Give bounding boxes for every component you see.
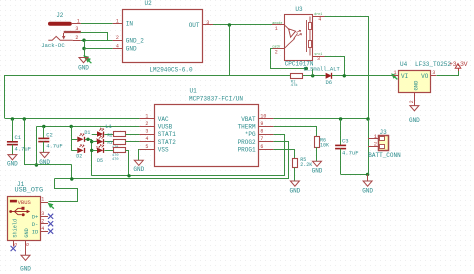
ERC marker at U4 VI — [391, 73, 397, 79]
U3 pin 3 — [313, 52, 325, 62]
junction after D6 — [343, 74, 346, 77]
svg-text:LM2940CS-6.0: LM2940CS-6.0 — [149, 67, 193, 74]
svg-text:4: 4 — [145, 136, 148, 142]
connector J2 pin 2 — [73, 35, 81, 41]
wire maze horizontal — [24, 164, 72, 166]
junction 6V at pin3 drop — [311, 74, 314, 77]
resistor R5 — [293, 157, 313, 168]
svg-text:src1: src1 — [314, 52, 322, 57]
svg-text:THERM: THERM — [238, 124, 256, 131]
J1 pin 5 Shield — [11, 240, 19, 251]
wire U1 VSS to GND — [139, 150, 140, 161]
junction maze bottom — [70, 177, 73, 180]
wire stub to D2 — [71, 150, 77, 152]
svg-text:4.7uF: 4.7uF — [46, 143, 63, 150]
wire J1 staircase — [49, 179, 78, 202]
svg-text:2: 2 — [374, 140, 377, 147]
wire to U2 GND pin — [84, 48, 113, 50]
ground under U4 — [409, 106, 420, 124]
J1 VBUS bar icon — [10, 200, 17, 203]
connector J1 body — [8, 197, 41, 241]
wire stub above junction — [312, 69, 314, 76]
wire U3 pin2 loop — [271, 49, 306, 69]
svg-text:6: 6 — [25, 243, 31, 246]
svg-text:1: 1 — [41, 197, 44, 203]
regulator U2 value LM2940CS-6.0 — [149, 67, 193, 74]
svg-text:D_Small_ALT: D_Small_ALT — [304, 65, 341, 72]
svg-text:2.2K: 2.2K — [300, 162, 312, 168]
svg-text:1: 1 — [116, 19, 119, 25]
svg-text:R3: R3 — [107, 142, 113, 146]
wire D4 to R3 — [104, 141, 113, 143]
diode D6 value D_Small_ALT — [304, 65, 341, 72]
connector J3 reference label — [380, 129, 388, 136]
wire R4 to PG loop — [126, 151, 129, 176]
svg-text:L1: L1 — [105, 123, 112, 130]
U4 pin 2 GND — [409, 80, 420, 106]
resistor R3 — [107, 140, 125, 159]
regulator U4 reference label — [400, 61, 408, 68]
wire junction down to 6V line — [229, 25, 231, 76]
svg-text:D2: D2 — [76, 154, 82, 160]
svg-text:VUSB: VUSB — [158, 124, 173, 131]
wire R5 to GND — [294, 168, 296, 181]
svg-text:OUT: OUT — [189, 22, 200, 29]
wire U3 pin3 to 6V line — [325, 57, 345, 76]
junction C1 top — [11, 117, 14, 120]
svg-text:U4: U4 — [400, 61, 408, 68]
junction at jack pin2 — [82, 39, 85, 42]
svg-text:2: 2 — [409, 100, 415, 103]
svg-text:GND: GND — [133, 166, 144, 173]
U4 pin 3 VO — [421, 70, 436, 80]
led D4 — [96, 135, 104, 150]
svg-text:+3.3V: +3.3V — [449, 61, 468, 68]
wire J3 vertical — [368, 119, 370, 174]
junction J3 top — [366, 117, 369, 120]
svg-text:GND: GND — [289, 187, 300, 194]
junction at GND row — [82, 47, 85, 50]
svg-text:GND: GND — [7, 161, 18, 168]
connector J3 body — [379, 136, 389, 151]
capacitor C2 — [38, 127, 62, 153]
regulator U4 value LF33_TO252 — [415, 61, 451, 68]
net label L1 — [105, 123, 112, 130]
junction PG detour — [127, 174, 130, 177]
U3 internal emission arrows — [296, 30, 301, 36]
connector J2 pin 3 — [64, 26, 81, 32]
wire U3 pin4 to VBAT rail — [325, 17, 369, 119]
wire R3 to STAT2 — [126, 141, 140, 143]
ground under R5 — [289, 181, 300, 194]
wire D6 to U4 — [332, 75, 394, 77]
wire R2 to STAT1 — [126, 134, 140, 136]
svg-text:1: 1 — [275, 26, 278, 32]
U3 internal output stage — [307, 17, 312, 56]
U2 pin 3 OUT — [189, 20, 213, 29]
led D1 — [77, 130, 90, 142]
ground under R6 — [312, 161, 323, 174]
wire LED feed vertical — [71, 127, 73, 151]
U1 pin 1 VAC — [140, 114, 169, 124]
wire stub to D1 — [71, 139, 77, 141]
U1 pin 5 VSS — [140, 144, 169, 154]
wire VAC drop to corner — [24, 119, 26, 165]
U4 pin 1 VI — [393, 70, 408, 80]
svg-text:4: 4 — [116, 43, 119, 49]
wire C3 bottom to GND — [341, 174, 368, 176]
svg-text:8: 8 — [260, 129, 263, 135]
svg-text:3: 3 — [206, 20, 209, 26]
svg-text:47k: 47k — [291, 83, 299, 88]
svg-text:4.7uF: 4.7uF — [15, 146, 32, 153]
ground under C1 — [7, 155, 18, 168]
svg-text:1: 1 — [145, 114, 148, 120]
wire VBAT rail right — [273, 118, 368, 120]
connector J2 Jack-DC barrel — [48, 22, 72, 26]
svg-text:GND: GND — [126, 46, 137, 53]
svg-text:Shield: Shield — [13, 219, 19, 238]
U1 pin 3 STAT1 — [140, 129, 177, 139]
resistor R2 — [107, 132, 125, 151]
svg-text:2: 2 — [75, 35, 78, 41]
svg-text:U3: U3 — [295, 6, 303, 13]
svg-text:2: 2 — [41, 218, 44, 224]
U3 pin 2 — [272, 45, 284, 56]
connector J1 value USB_OTG — [15, 187, 44, 195]
svg-text:C3: C3 — [342, 138, 349, 145]
svg-text:VBAT: VBAT — [241, 116, 256, 123]
U1 pin 10 VBAT — [241, 114, 273, 124]
U1 pin 7 PROG2 — [238, 136, 274, 146]
svg-text:VBUS: VBUS — [18, 199, 32, 206]
ground under C2 — [39, 152, 50, 165]
svg-text:GND: GND — [24, 228, 30, 237]
svg-text:3: 3 — [432, 70, 435, 76]
svg-text:VI: VI — [401, 73, 408, 80]
U3 pin 1 — [272, 21, 284, 32]
svg-text:GND: GND — [409, 117, 420, 124]
svg-text:GND: GND — [78, 64, 89, 71]
svg-text:5: 5 — [13, 243, 19, 246]
J1 Shield text — [13, 219, 19, 238]
wire D1 cathode — [85, 139, 92, 141]
svg-text:VSS: VSS — [158, 146, 169, 153]
svg-text:drn1: drn1 — [314, 12, 322, 17]
svg-text:U1: U1 — [190, 88, 198, 95]
svg-text:VO: VO — [421, 73, 429, 80]
connector J2 pin 1 — [72, 19, 81, 25]
connector J1 reference label — [17, 181, 25, 188]
svg-text:GND: GND — [312, 168, 323, 175]
svg-text:1: 1 — [393, 70, 396, 76]
junction LED feed — [70, 125, 73, 128]
wire VUSB rail — [36, 126, 139, 128]
svg-text:10K: 10K — [320, 142, 329, 148]
svg-text:ID: ID — [32, 228, 39, 235]
J1 VBUS text — [18, 199, 32, 206]
wire J2 pin1 to U2 IN — [81, 23, 113, 25]
connector J2 value Jack-DC — [41, 42, 65, 49]
junction cluster c — [90, 149, 93, 152]
wire maze down — [71, 165, 73, 179]
svg-text:3: 3 — [41, 211, 44, 217]
svg-text:BATT_CONN: BATT_CONN — [368, 152, 401, 159]
diode D6 — [326, 73, 333, 86]
svg-text:Jack-DC: Jack-DC — [41, 42, 65, 49]
wire VAC rail — [5, 118, 140, 120]
connector J3 value BATT_CONN — [368, 152, 401, 159]
svg-text:3: 3 — [75, 26, 78, 32]
svg-text:J2: J2 — [56, 12, 64, 19]
svg-text:GND: GND — [412, 80, 419, 91]
svg-text:3: 3 — [145, 129, 148, 135]
regulator U4 body — [399, 71, 431, 93]
svg-text:D6: D6 — [326, 79, 333, 86]
U3 internal LED — [285, 25, 298, 47]
wire J2 pin3 to U2 GND_2 — [81, 33, 108, 41]
wire D3 to R2 — [104, 134, 113, 136]
svg-text:D5: D5 — [97, 158, 103, 164]
J1 pin 1 VBUS — [41, 197, 49, 203]
svg-text:U2: U2 — [145, 0, 153, 7]
J1 pin 2 D- — [32, 218, 54, 228]
junction VAC drop — [23, 117, 26, 120]
U2 pin 2 GND_2 — [113, 35, 145, 44]
U1 pin 2 VUSB — [140, 121, 173, 131]
svg-text:STAT1: STAT1 — [158, 131, 176, 138]
junction C3 top — [339, 117, 342, 120]
wire THERM to R6 — [274, 127, 317, 137]
svg-text:4.7uF: 4.7uF — [342, 150, 359, 157]
power +3.3V — [449, 61, 468, 71]
capacitor C3 — [335, 119, 358, 174]
svg-text:PROG2: PROG2 — [238, 139, 256, 146]
J3 pin 2 — [368, 140, 385, 148]
svg-text:GND_2: GND_2 — [126, 37, 144, 44]
U1 pin 8 *PG — [245, 129, 274, 139]
svg-text:GND: GND — [20, 265, 31, 272]
wire stub to D5 — [92, 150, 97, 152]
svg-text:*PG: *PG — [245, 131, 256, 138]
ERC marker at jack GND — [83, 55, 91, 63]
svg-text:2: 2 — [145, 121, 148, 127]
junction bottom GND — [366, 173, 369, 176]
resistor R1 labels — [291, 81, 299, 89]
wire jack down to GND — [84, 40, 86, 48]
wire D5 to R4 — [104, 150, 113, 152]
J1 pin 4 ID — [32, 226, 54, 236]
svg-text:5: 5 — [145, 144, 148, 150]
wire J2 pin2 horizontal — [81, 40, 113, 42]
J3 pin 1 — [368, 133, 385, 141]
charger U1 reference label — [190, 88, 198, 95]
U3 pin 4 — [313, 12, 325, 22]
svg-text:D1: D1 — [84, 130, 90, 136]
net label ring — [304, 67, 308, 71]
connector J2 reference label — [56, 12, 64, 19]
wire R1 to D6 — [303, 75, 326, 77]
svg-text:4: 4 — [318, 16, 321, 22]
charger U1 value MCP73837-FCI/UN — [189, 96, 243, 103]
svg-text:470: 470 — [112, 158, 118, 162]
svg-text:2: 2 — [275, 50, 278, 56]
svg-text:GND: GND — [362, 187, 373, 194]
J1 GND text — [24, 228, 30, 237]
svg-text:7: 7 — [260, 136, 263, 142]
junction maze — [35, 163, 38, 166]
svg-text:1: 1 — [77, 19, 80, 25]
wire U4 VO to +3.3V — [437, 69, 459, 76]
svg-text:6: 6 — [260, 144, 263, 150]
led D5 — [97, 144, 104, 164]
U1 pin 9 THERM — [238, 121, 274, 131]
J1 USB icon — [9, 207, 30, 216]
svg-text:R2: R2 — [107, 134, 113, 138]
ground under J1 — [20, 255, 31, 272]
optocoupler U3 body — [285, 15, 313, 61]
U1 pin 4 STAT2 — [140, 136, 177, 146]
svg-text:anode: anode — [272, 21, 282, 26]
wire PROG1 to R5 — [274, 150, 295, 159]
svg-text:D-: D- — [32, 221, 39, 228]
resistor R1 body — [291, 74, 303, 79]
wire stub to D4 — [92, 141, 97, 143]
ground jack GND — [78, 58, 89, 72]
svg-text:VAC: VAC — [158, 116, 169, 123]
regulator U2 body — [123, 10, 203, 63]
svg-text:IN: IN — [126, 21, 134, 28]
led D2 — [76, 144, 84, 159]
optocoupler U3 value CPC1017N — [285, 61, 314, 68]
wire U2 OUT to U3 pin1 — [213, 24, 272, 26]
junction cluster a — [86, 138, 89, 141]
svg-text:10: 10 — [260, 114, 266, 120]
wire PG detour — [92, 135, 285, 176]
svg-text:MCP73837-FCI/UN: MCP73837-FCI/UN — [189, 96, 243, 103]
J1 pin 6 GND — [25, 240, 31, 255]
ground bottom right — [362, 174, 373, 194]
svg-text:PROG1: PROG1 — [238, 146, 256, 153]
wire VUSB rail left drop — [36, 127, 38, 166]
wire stub to D3 — [92, 134, 97, 136]
svg-text:D+: D+ — [32, 214, 39, 221]
wire stub to jack GND symbol — [84, 49, 86, 58]
J1 pin 3 D+ — [32, 211, 54, 221]
svg-text:9: 9 — [260, 121, 263, 127]
junction cluster b — [90, 140, 93, 143]
svg-text:C2: C2 — [46, 132, 53, 139]
svg-text:4: 4 — [41, 226, 44, 232]
resistor R4 — [112, 148, 126, 162]
svg-text:USB_OTG: USB_OTG — [15, 187, 44, 195]
svg-text:2: 2 — [116, 35, 119, 41]
led D3 — [96, 128, 104, 143]
wire PROG2 detour — [55, 142, 289, 179]
ERC marker at J1 VBUS — [48, 203, 54, 209]
svg-text:cath: cath — [272, 45, 280, 50]
U2 pin 4 GND — [113, 43, 137, 52]
U2 pin 1 IN — [113, 19, 134, 28]
wire cluster mid vertical — [91, 139, 93, 176]
svg-text:C1: C1 — [15, 134, 22, 141]
wire 6V long line — [5, 76, 291, 119]
connector J2 switch contact — [48, 33, 72, 40]
svg-text:STAT2: STAT2 — [158, 139, 176, 146]
wire R6 to GND — [316, 147, 318, 161]
optocoupler U3 reference label — [295, 6, 303, 13]
ground under VSS — [133, 160, 144, 173]
resistor R6 — [315, 137, 330, 149]
junction U2 OUT — [228, 23, 231, 26]
junction C2 top — [42, 125, 45, 128]
capacitor C1 — [7, 119, 31, 155]
regulator U2 reference label — [145, 0, 153, 7]
svg-text:LF33_TO252: LF33_TO252 — [415, 61, 451, 68]
charger U1 body — [155, 105, 259, 167]
U1 pin 6 PROG1 — [238, 144, 274, 154]
